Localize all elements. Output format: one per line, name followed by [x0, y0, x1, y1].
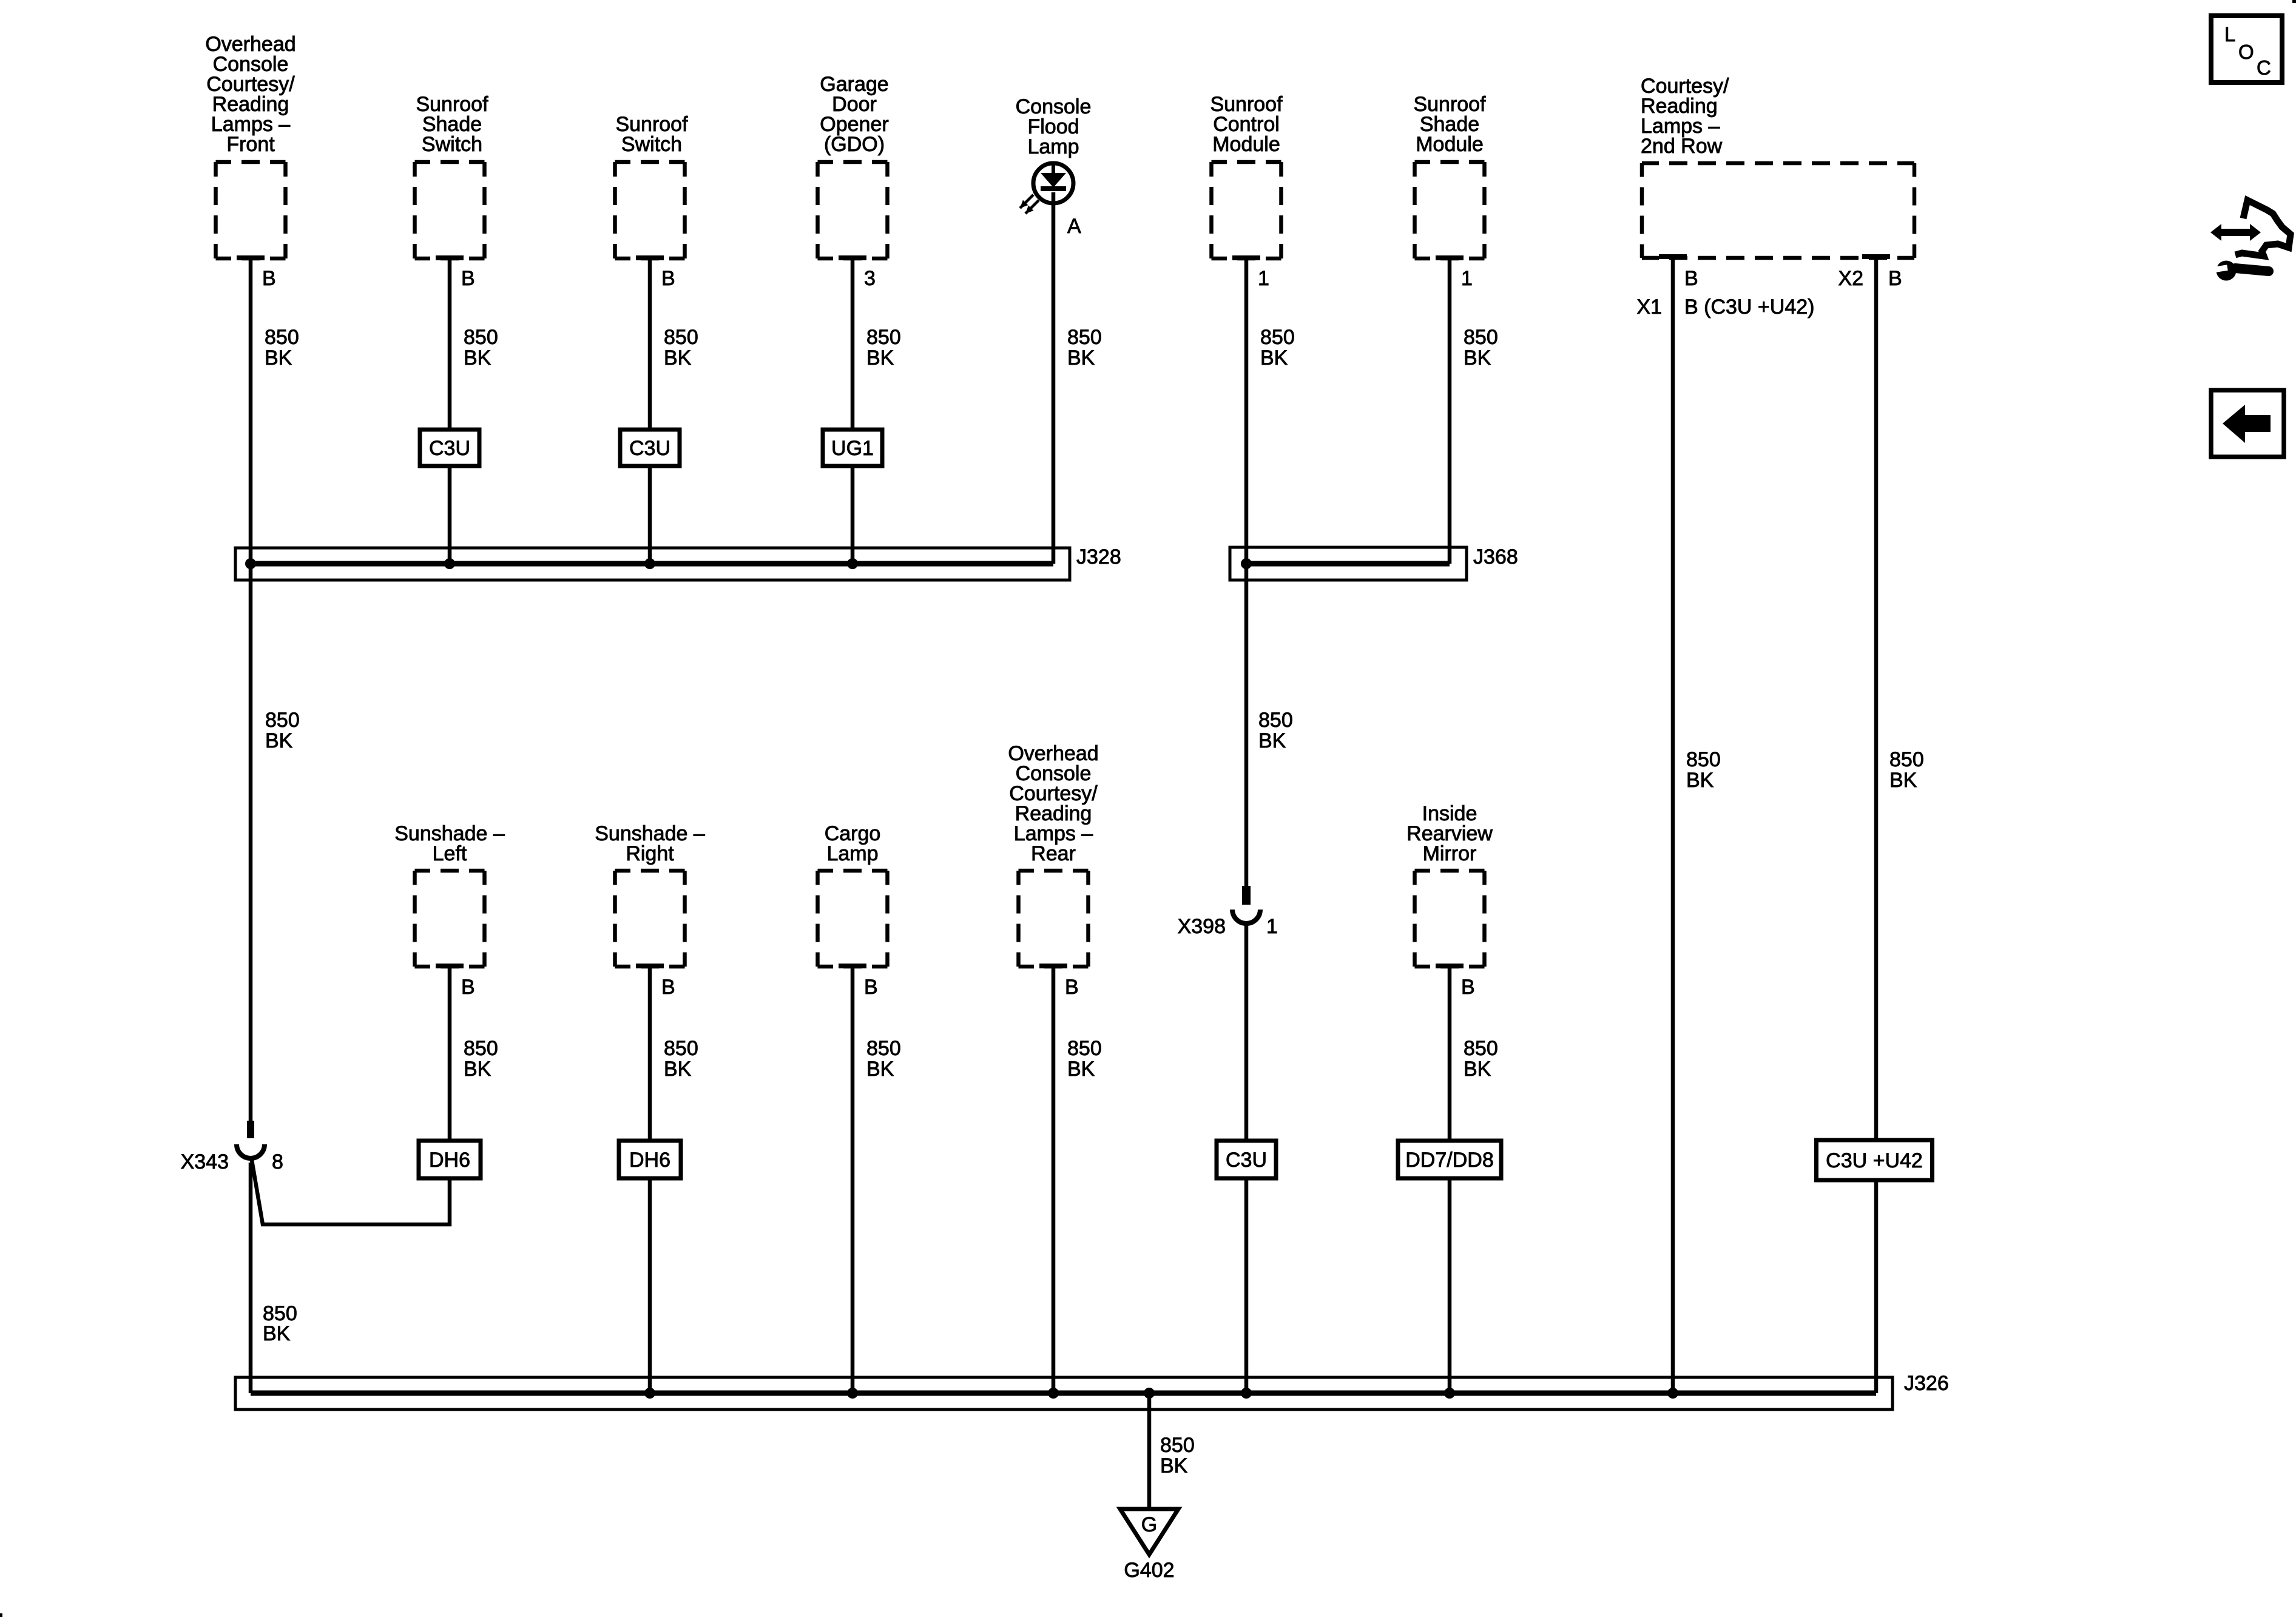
junction dot J326 ground lead	[1144, 1388, 1155, 1399]
junction dot J326 2nd row X1	[1667, 1388, 1678, 1399]
svg-text:L: L	[2224, 23, 2235, 46]
svg-text:BK: BK	[1258, 729, 1286, 752]
wire: overhead console front lamp ground, circuit 850 BK, column 1 top	[249, 258, 253, 1123]
wire: console flood lamp to J328	[1052, 192, 1056, 564]
svg-text:Mirror: Mirror	[1423, 842, 1477, 865]
wire: overhead console rear lamps to J326	[1052, 967, 1056, 1393]
wire: X398 to J326	[1244, 921, 1249, 1393]
svg-text:850: 850	[464, 1037, 498, 1060]
svg-text:Lamp: Lamp	[826, 842, 878, 865]
svg-text:850: 850	[664, 1037, 698, 1060]
svg-text:G402: G402	[1124, 1559, 1174, 1582]
connector DH6 (sunshade right wire)	[619, 1141, 681, 1178]
svg-text:BK: BK	[464, 346, 491, 370]
connector X343 (in-line, male/female)	[247, 1121, 254, 1138]
svg-text:850: 850	[1686, 748, 1721, 771]
svg-text:BK: BK	[664, 1058, 692, 1081]
connector C3U +U42 (2nd row lamps wire)	[1817, 1140, 1933, 1180]
svg-text:B: B	[461, 267, 475, 290]
svg-text:BK: BK	[1260, 346, 1288, 370]
svg-text:BK: BK	[1067, 346, 1095, 370]
wire: garage door opener to J328	[851, 258, 855, 564]
page corner mark bottom-left	[0, 1613, 2, 1617]
wire: sunroof shade module to J368	[1448, 258, 1452, 564]
wire: inside rearview mirror to J326	[1448, 967, 1452, 1393]
junction dot J326 mirror	[1444, 1388, 1455, 1399]
wire: sunroof control module to X398	[1244, 258, 1249, 887]
svg-text:850: 850	[1258, 709, 1293, 732]
svg-text:Right: Right	[626, 842, 674, 865]
svg-text:BK: BK	[1464, 346, 1491, 370]
svg-text:J328: J328	[1076, 545, 1121, 569]
wire: sunshade left lamp to DH6	[448, 967, 452, 1143]
svg-text:B: B	[1461, 976, 1475, 999]
svg-text:B: B	[661, 267, 675, 290]
svg-text:BK: BK	[1464, 1058, 1491, 1081]
wire: sunshade right lamp to J326	[648, 967, 652, 1393]
svg-text:Rear: Rear	[1031, 842, 1076, 865]
svg-text:BK: BK	[664, 346, 692, 370]
svg-text:850: 850	[464, 326, 498, 349]
icon: harness repair (double arrow, outline, wrench)	[2210, 224, 2261, 241]
icon: LOC box	[2211, 16, 2282, 83]
junction dot J326 cargo lamp	[847, 1388, 858, 1399]
svg-text:C: C	[2257, 56, 2271, 79]
svg-text:2nd Row: 2nd Row	[1641, 135, 1723, 158]
wire: X343 to J326	[249, 1163, 253, 1393]
icon: back arrow box	[2211, 390, 2284, 457]
connector DH6 (sunshade left wire)	[419, 1141, 481, 1178]
svg-text:C3U +U42: C3U +U42	[1826, 1149, 1923, 1172]
svg-text:DH6: DH6	[629, 1149, 670, 1172]
svg-text:BK: BK	[464, 1058, 491, 1081]
junction dot J328 column 1	[245, 558, 256, 569]
svg-text:B: B	[661, 976, 675, 999]
connector X398 (in-line, male/female)	[1242, 886, 1251, 905]
junction dot J326 sunroof control	[1241, 1388, 1252, 1399]
junction dot J328 column 2	[444, 558, 455, 569]
svg-text:C3U: C3U	[629, 437, 670, 460]
svg-text:X2: X2	[1838, 267, 1863, 290]
svg-text:1: 1	[1266, 915, 1278, 938]
svg-text:850: 850	[664, 326, 698, 349]
svg-text:Lamp: Lamp	[1027, 135, 1079, 158]
svg-text:X1: X1	[1636, 295, 1662, 319]
svg-text:BK: BK	[1067, 1058, 1095, 1081]
svg-text:850: 850	[265, 709, 300, 732]
svg-text:B: B	[262, 267, 276, 290]
svg-text:X398: X398	[1178, 915, 1226, 938]
lamp emission arrows	[1020, 195, 1033, 208]
svg-text:B: B	[864, 976, 878, 999]
svg-text:A: A	[1067, 215, 1081, 238]
junction dot J328 column 3	[644, 558, 655, 569]
svg-text:Left: Left	[433, 842, 467, 865]
svg-text:1: 1	[1258, 267, 1269, 290]
svg-text:B (C3U +U42): B (C3U +U42)	[1684, 295, 1814, 319]
svg-text:850: 850	[866, 326, 901, 349]
splice pack J368	[1230, 547, 1467, 580]
wire: courtesy/reading lamps 2nd row X2 pin B to J326	[1874, 255, 1879, 1393]
svg-text:UG1: UG1	[831, 437, 874, 460]
svg-text:O: O	[2238, 41, 2254, 63]
svg-text:BK: BK	[265, 729, 293, 752]
connector DD7/DD8 (inside rearview mirror wire)	[1398, 1141, 1501, 1178]
ground symbol G402	[1120, 1509, 1178, 1555]
connector C3U (sunroof control module wire)	[1217, 1141, 1276, 1178]
splice pack J328	[235, 548, 1070, 580]
svg-text:1: 1	[1461, 267, 1473, 290]
svg-text:850: 850	[1160, 1434, 1195, 1457]
svg-text:850: 850	[866, 1037, 901, 1060]
svg-text:B: B	[1065, 976, 1079, 999]
svg-text:DH6: DH6	[429, 1149, 470, 1172]
svg-text:Module: Module	[1212, 133, 1280, 156]
svg-text:B: B	[461, 976, 475, 999]
junction dot J328 column 4	[847, 558, 858, 569]
svg-text:850: 850	[1464, 1037, 1498, 1060]
svg-text:850: 850	[1260, 326, 1295, 349]
svg-text:850: 850	[1067, 326, 1102, 349]
svg-text:Front: Front	[226, 133, 275, 156]
svg-text:J368: J368	[1473, 545, 1518, 569]
wire: sunroof switch to J328	[648, 258, 652, 564]
junction dot J326 sunshade right	[644, 1388, 655, 1399]
svg-text:BK: BK	[1686, 769, 1714, 792]
svg-text:850: 850	[265, 326, 299, 349]
svg-text:G: G	[1141, 1513, 1157, 1536]
svg-text:3: 3	[864, 267, 876, 290]
svg-text:BK: BK	[1889, 769, 1917, 792]
svg-text:Switch: Switch	[621, 133, 682, 156]
svg-text:850: 850	[1889, 748, 1924, 771]
connector UG1 (garage door opener wire)	[823, 430, 882, 466]
svg-text:Switch: Switch	[422, 133, 482, 156]
wire: sunshade left branch from X343 to DH6	[251, 1156, 450, 1224]
svg-text:BK: BK	[866, 346, 894, 370]
svg-text:BK: BK	[263, 1322, 291, 1345]
svg-text:BK: BK	[866, 1058, 894, 1081]
svg-text:DD7/DD8: DD7/DD8	[1405, 1149, 1493, 1172]
wire: courtesy/reading lamps 2nd row X1 pin B to J326	[1671, 255, 1675, 1393]
svg-text:B: B	[1888, 267, 1902, 290]
svg-text:C3U: C3U	[429, 437, 470, 460]
junction dot J368	[1241, 558, 1252, 569]
svg-text:850: 850	[1067, 1037, 1102, 1060]
svg-text:Module: Module	[1416, 133, 1484, 156]
wire: sunroof shade switch to J328	[448, 258, 452, 564]
splice pack J326	[235, 1377, 1893, 1409]
svg-text:BK: BK	[1160, 1454, 1188, 1477]
page corner mark top-right	[2292, 0, 2296, 3]
svg-text:(GDO): (GDO)	[824, 133, 885, 156]
junction dot J326 rear lamps	[1048, 1388, 1059, 1399]
svg-text:BK: BK	[265, 346, 292, 370]
connector C3U (sunroof shade switch wire)	[420, 430, 479, 466]
svg-text:C3U: C3U	[1226, 1149, 1267, 1172]
svg-text:J326: J326	[1904, 1372, 1949, 1395]
svg-text:B: B	[1684, 267, 1698, 290]
svg-text:8: 8	[272, 1150, 283, 1173]
wire: J326 to ground G402	[1147, 1393, 1152, 1509]
connector C3U (sunroof switch wire)	[620, 430, 680, 466]
svg-text:850: 850	[1464, 326, 1498, 349]
wire: cargo lamp to J326	[851, 967, 855, 1393]
svg-text:X343: X343	[181, 1150, 229, 1173]
